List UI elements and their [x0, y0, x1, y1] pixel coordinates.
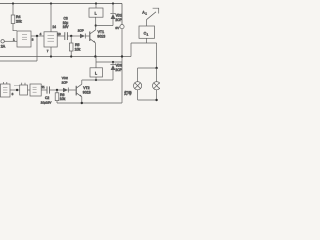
resistor R5 — [69, 36, 73, 57]
transistor VT2 — [76, 84, 82, 97]
wire left leg to mid rail — [130, 43, 132, 57]
capacitor C2 — [47, 86, 50, 93]
node top rail VD1 — [112, 2, 114, 4]
electromagnet C1 box — [139, 26, 155, 38]
wire gate3 output — [10, 89, 20, 91]
svg-text:灯号: 灯号 — [124, 91, 132, 96]
node top rail J1 — [95, 2, 97, 4]
wire top positive rail — [0, 3, 122, 5]
node top rail pin14 — [50, 2, 52, 4]
gate IC1e box — [30, 84, 41, 96]
wire VD1 bottom to collector — [96, 25, 113, 27]
svg-text:4: 4 — [40, 32, 42, 36]
terminal input A — [1, 40, 4, 43]
node top rail R4 — [12, 2, 14, 4]
node mid rail bus — [121, 55, 123, 57]
gate IC1b symbol marks — [48, 36, 55, 42]
wire lower-left feedback line — [0, 60, 37, 62]
capacitor C3 — [65, 32, 68, 40]
node lamp bottom — [155, 99, 157, 101]
wire branch to VD3 and bus — [96, 61, 122, 63]
node bottom rail VT2 emitter — [81, 102, 83, 104]
node lamp link — [155, 67, 157, 69]
node J2 bottom — [95, 79, 97, 81]
wire lamp2 top lead — [156, 68, 158, 82]
svg-text:20k: 20k — [16, 19, 22, 23]
gate IC1c box — [0, 84, 10, 97]
transistor VT1 — [90, 30, 96, 43]
svg-text:2CP: 2CP — [62, 80, 68, 84]
wire gate output to C2 — [41, 89, 47, 91]
svg-text:VD2: VD2 — [62, 76, 68, 80]
node collector diode junction — [95, 24, 97, 26]
svg-text:R5: R5 — [75, 43, 80, 47]
lamp HL2 — [153, 82, 161, 90]
wire gate2 output — [57, 35, 64, 37]
gate IC1a box — [17, 31, 31, 47]
node R5 tap — [70, 35, 72, 37]
wire tie stub — [14, 85, 20, 87]
resistor R4 — [11, 4, 17, 31]
wire input to gate1 — [4, 40, 17, 42]
wire between gates — [28, 89, 31, 91]
wire lamp top link — [138, 67, 157, 69]
wire lamp2 bottom lead — [156, 90, 158, 100]
node mid rail VT1 emitter — [94, 55, 96, 57]
wire lamp bottom link — [138, 99, 157, 101]
wire J2 bottom pin — [95, 77, 97, 80]
svg-text:14: 14 — [52, 25, 56, 29]
svg-text:C3: C3 — [64, 16, 68, 20]
relay coil J1 box — [89, 8, 103, 17]
svg-text:11: 11 — [42, 85, 45, 89]
diode VD3 flyback — [110, 62, 115, 80]
svg-text:2CP: 2CP — [115, 18, 122, 22]
wire VT1 collector — [95, 17, 97, 30]
svg-text:2CP: 2CP — [115, 68, 122, 72]
wire pin14 supply — [50, 4, 52, 32]
node before coupling box — [16, 89, 18, 91]
wire middle rail — [0, 56, 131, 58]
wire VD3 bottom to VT2 collector — [82, 79, 113, 81]
wire right leg down — [156, 43, 158, 68]
wire gate1 output to gate2 — [31, 35, 44, 37]
svg-text:2A: 2A — [1, 45, 6, 49]
svg-text:16V: 16V — [63, 25, 70, 29]
node gate1 output branch — [36, 35, 38, 37]
svg-text:1: 1 — [145, 11, 147, 15]
svg-text:9V: 9V — [115, 26, 120, 30]
wire bottom rail — [57, 102, 122, 104]
pin ticks gate IC1d — [21, 83, 23, 85]
svg-text:10: 10 — [57, 32, 61, 36]
wire C2 to diode VD — [50, 89, 63, 91]
wire right bus vertical upper — [121, 4, 123, 25]
svg-text:R6: R6 — [60, 93, 65, 97]
svg-text:10μ16V: 10μ16V — [41, 101, 53, 105]
svg-text:VD1: VD1 — [116, 14, 123, 18]
wire VT1 emitter to mid rail — [94, 43, 96, 57]
svg-text:10k: 10k — [60, 97, 66, 101]
relay coil J2 box — [90, 68, 103, 77]
svg-text:8: 8 — [12, 92, 14, 96]
svg-text:7: 7 — [47, 49, 49, 53]
svg-text:2CP: 2CP — [78, 29, 84, 33]
connector J plug circle on right bus — [120, 25, 124, 29]
node mid rail pin7 — [50, 55, 52, 57]
wire right bus vertical lower — [121, 29, 123, 103]
wire VT2 collector up — [81, 80, 83, 84]
wire C1 bottom tee — [146, 38, 148, 43]
diode VD1 flyback — [110, 4, 115, 26]
wire C3 to diode — [68, 35, 80, 37]
wire feedback vertical — [36, 36, 38, 61]
svg-text:VT2: VT2 — [83, 86, 89, 90]
svg-text:C2: C2 — [45, 96, 49, 100]
svg-text:VD3: VD3 — [116, 63, 123, 67]
wire J2 supply vertical — [95, 57, 97, 68]
gate IC1a symbol marks — [22, 35, 27, 40]
resistor R6 — [55, 90, 59, 103]
diode VD2 series base VT1 — [80, 34, 89, 39]
svg-text:L: L — [95, 12, 97, 16]
wire lamp1 bottom lead — [137, 90, 139, 100]
svg-text:VT1: VT1 — [98, 30, 104, 34]
pin ticks gate IC1c — [3, 82, 5, 84]
svg-text:10μ: 10μ — [63, 21, 69, 25]
wire lamp1 top lead — [137, 68, 139, 82]
lamp HL1 — [134, 82, 142, 90]
gate IC1e symbol marks — [33, 87, 37, 92]
diode VD4 series base VT2 — [63, 88, 76, 93]
gate IC1d box small — [20, 85, 28, 95]
node R6 tap — [56, 89, 58, 91]
svg-text:9013: 9013 — [97, 34, 105, 38]
gate IC1b box — [44, 32, 57, 47]
svg-text:1: 1 — [147, 33, 149, 37]
wire VT2 emitter down — [81, 97, 83, 103]
svg-text:3: 3 — [32, 38, 34, 42]
wire J1 top pin — [95, 4, 97, 9]
svg-text:L: L — [95, 71, 97, 75]
node mid rail R5 — [70, 55, 72, 57]
gate IC1c symbol marks — [3, 88, 7, 93]
svg-text:10k: 10k — [75, 47, 81, 51]
wire pin7 ground — [50, 47, 52, 57]
svg-text:9013: 9013 — [83, 90, 91, 94]
node VD3 top — [112, 61, 114, 63]
relay contact switch A1 — [146, 8, 158, 26]
